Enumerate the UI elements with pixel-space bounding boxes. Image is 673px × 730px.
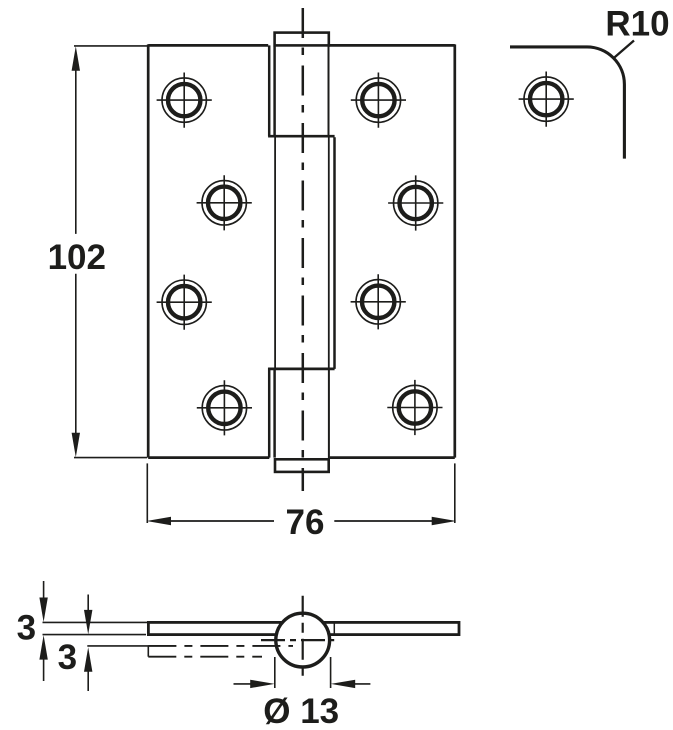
svg-text:76: 76 — [286, 503, 325, 542]
svg-text:102: 102 — [48, 238, 106, 277]
svg-text:3: 3 — [58, 638, 77, 677]
svg-text:R10: R10 — [605, 4, 669, 43]
svg-text:Ø 13: Ø 13 — [263, 692, 339, 730]
svg-text:3: 3 — [17, 609, 36, 648]
